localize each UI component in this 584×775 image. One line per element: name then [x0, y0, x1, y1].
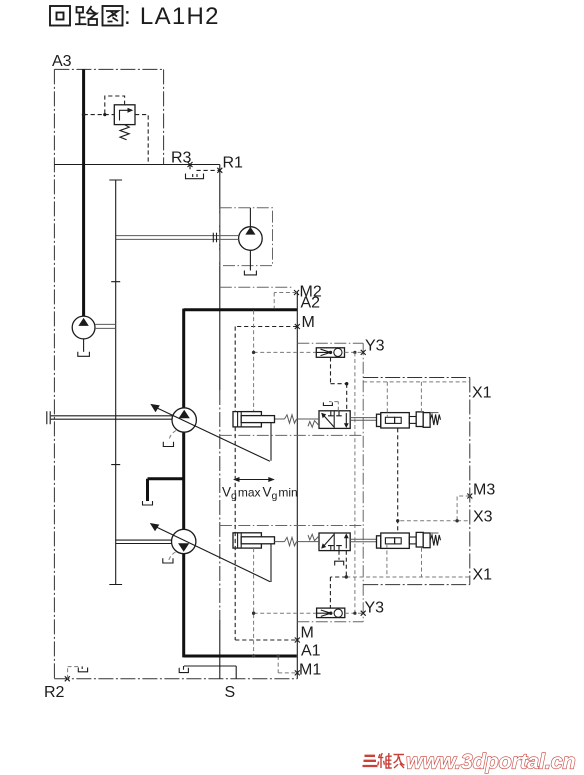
- svg-text:A3: A3: [52, 53, 72, 70]
- title 回路图: LA1H2: [50, 3, 220, 30]
- feedback link upper: [270, 423, 272, 461]
- svg-text:www.3dportal.cn: www.3dportal.cn: [406, 750, 576, 774]
- svg-text:S: S: [225, 684, 236, 701]
- vg max / vg min arrow: [222, 477, 298, 502]
- wire: bottom boundary: [54, 678, 297, 680]
- wire: X3 vertical pilot: [397, 428, 399, 533]
- wire: relief pilot dashes: [105, 96, 125, 115]
- svg-text:M: M: [301, 625, 314, 642]
- feedback link lower: [270, 544, 272, 582]
- svg-text:X1: X1: [472, 385, 492, 402]
- svg-text:Y3: Y3: [365, 338, 385, 355]
- svg-text:R1: R1: [223, 155, 244, 172]
- node A2 pilot junction: [252, 311, 255, 412]
- wire: A1 pilot vertical: [253, 548, 255, 656]
- wire: tank branch from main line: [143, 479, 184, 505]
- servo cylinder lower: [233, 533, 275, 582]
- shaft to charge pump (double line): [95, 324, 116, 328]
- wire: left boundary: [53, 69, 55, 678]
- svg-text:: LA1H2: : LA1H2: [124, 3, 220, 30]
- svg-text:R3: R3: [171, 150, 192, 167]
- relief valve (high pressure): [84, 96, 149, 163]
- watermark 三维网www.3dportal.cn: [363, 750, 576, 774]
- main pump 2: [150, 523, 270, 582]
- wire: suction line: [184, 666, 236, 679]
- tank bracket R3: [186, 174, 204, 179]
- feedback rod lower with spring: [275, 537, 320, 545]
- dash-dot inner boundary upper: [220, 434, 363, 436]
- wire: main shaft (double line): [47, 411, 172, 424]
- variable displacement arrow pump 2: [155, 526, 271, 582]
- shuttle valve Y3 upper: [254, 348, 364, 358]
- wire: M pilot vertical (cylinders): [234, 427, 236, 640]
- wire: shaft to pump 2 (double line): [116, 540, 172, 543]
- wire: R3/R1 header line: [54, 164, 219, 166]
- control valve upper (3-way): [308, 402, 350, 429]
- tank bracket charge pump: [78, 352, 90, 357]
- control valve lower (3-way): [308, 533, 350, 566]
- wire: main block left thick line: [182, 309, 185, 658]
- suction bracket: [179, 666, 188, 673]
- svg-text:R2: R2: [44, 684, 65, 701]
- spring right of measuring piston: [430, 415, 440, 426]
- shaft to aux pump (double line): [116, 236, 239, 240]
- svg-text:X1: X1: [473, 567, 493, 584]
- outer phantom boundary: [54, 69, 297, 678]
- pilot dashes from piston lower: [387, 544, 422, 577]
- auxiliary pump block boundary: [220, 208, 273, 266]
- spring left of valve: [308, 421, 319, 428]
- spring right of measuring piston lower: [430, 535, 440, 546]
- variable displacement arrow pump 1: [155, 407, 270, 461]
- case drain pump 1: [169, 431, 176, 442]
- svg-text:A1: A1: [301, 643, 321, 660]
- drain bracket above valve: [329, 402, 338, 411]
- wire: top boundary: [54, 68, 163, 70]
- mechanical shaft line (vertical): [109, 180, 122, 585]
- svg-text:Y3: Y3: [365, 600, 385, 617]
- control housing boundary (Y3 block): [297, 343, 363, 622]
- svg-text:A2: A2: [301, 295, 321, 312]
- pilot dashes into piston: [387, 382, 421, 417]
- feedback rod upper with spring: [275, 415, 320, 423]
- shuttle valve Y3 lower: [252, 608, 363, 618]
- wire: M3/X3 pilot dashes: [396, 496, 470, 523]
- wire: A3 boost line (thick): [82, 69, 85, 316]
- dash-dot inner boundary lower: [220, 525, 363, 527]
- wire: section boundary right: [296, 292, 298, 679]
- tank bracket aux pump: [244, 271, 256, 275]
- spring below relief valve: [120, 125, 129, 140]
- wire: A1 thick line: [184, 655, 297, 658]
- spring left of valve lower: [308, 534, 319, 541]
- svg-text:M3: M3: [473, 482, 495, 499]
- svg-text:M1: M1: [299, 662, 321, 679]
- servo cylinder upper: [233, 412, 275, 461]
- wire: shuttle to valve pilot: [331, 357, 349, 411]
- wire: A2 thick line: [184, 308, 298, 311]
- case drain pump 2: [168, 552, 175, 563]
- measuring piston upper: [350, 382, 469, 428]
- wire: upper-right boundary: [163, 69, 165, 164]
- main pump 1: [150, 404, 270, 461]
- X1 pilot housing boundary: [363, 378, 470, 585]
- wire: lower valve pilot to Y3: [330, 551, 346, 609]
- wire: Y3 link vertical: [354, 352, 356, 613]
- measuring piston lower: [345, 532, 470, 578]
- auxiliary gear pump: [116, 208, 262, 275]
- node: relief pilot junction: [82, 113, 86, 117]
- svg-text:M: M: [302, 314, 315, 331]
- wire: S vertical line: [219, 165, 221, 391]
- charge pump: [72, 316, 116, 356]
- drain bracket below valve lower: [338, 551, 340, 560]
- svg-text:X3: X3: [473, 509, 493, 526]
- coupling ticks: [213, 233, 216, 243]
